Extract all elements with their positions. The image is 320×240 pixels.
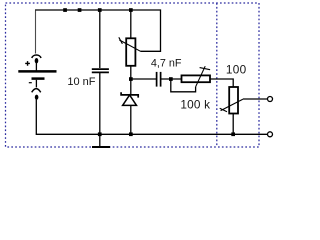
potentiometer P2 wiper diagonal [196,66,206,87]
capacitor C1 plate top [92,68,109,70]
node dot P1 top [129,8,133,12]
svg-text:100 k: 100 k [180,97,210,111]
node dot C1 top [98,8,102,12]
wire C2 to node B [161,78,182,80]
enclosure dashed border [6,3,260,147]
potentiometer P2 body [182,75,211,82]
node dot rail 2 [78,8,82,12]
wire P1 bottom stem to node A [130,66,132,79]
wire P2 right to P3 top [210,79,233,87]
svg-text:10 nF: 10 nF [67,76,95,88]
battery BT1 minus sign [29,82,32,84]
battery BT1 plus sign [25,61,30,66]
wire zener top stem [130,79,132,95]
potentiometer P3 body [229,87,238,114]
battery BT1 snap contact top (dot) [35,58,39,63]
node dot zener bottom [129,132,133,136]
svg-text:4,7 nF: 4,7 nF [151,58,182,70]
capacitor C1 plate bottom [92,71,109,73]
potentiometer P1 wiper diagonal [119,40,140,51]
wire P3 wiper to output 1 [243,98,268,100]
battery BT1 positive plate [18,70,56,73]
node A dot [129,77,133,81]
battery BT1 stem dot to plate [35,63,37,71]
wire node B loop to P2 wiper [171,79,196,92]
capacitor C2 plate right [160,72,162,87]
potentiometer P3 wiper diagonal [221,99,243,110]
battery BT1 negative plate [32,77,45,80]
wire P1 top stem [130,10,132,38]
shield divider (dashed) [216,3,218,147]
battery BT1 snap connector bottom (arc) [32,89,41,93]
ground stem [99,134,101,146]
node dot rail 1 [63,8,67,12]
wire bottom rail [36,98,267,134]
capacitor C2 plate left [156,72,158,87]
node B dot [169,77,173,81]
node dot C1 bottom [98,132,102,136]
wire top rail [35,10,161,51]
zener diode D1 cathode bar [121,92,138,97]
potentiometer P1 body [126,38,135,66]
battery BT1 snap connector top (arc) [32,55,41,58]
wire node A to C2 [131,78,156,80]
wire C1 top stem [99,10,101,68]
potentiometer P1 wiper arrowhead [119,37,123,44]
zener diode D1 triangle [123,95,137,105]
battery BT1 snap contact bottom (dot) [35,95,39,100]
potentiometer P2 wiper arrowhead [200,68,211,70]
node dot P3 bottom [231,132,235,136]
svg-text:100: 100 [226,62,247,76]
output terminal 2 [268,132,273,137]
ground bar [92,146,110,148]
potentiometer P3 wiper arrowhead [220,108,227,111]
output terminal 1 [268,97,273,102]
wire C1 bottom stem [99,73,101,135]
wire zener bottom stem [130,106,132,135]
wire battery top drop [35,11,37,54]
battery BT1 stem between plate and snap [35,80,37,88]
wire P3 bottom stem [232,114,234,135]
